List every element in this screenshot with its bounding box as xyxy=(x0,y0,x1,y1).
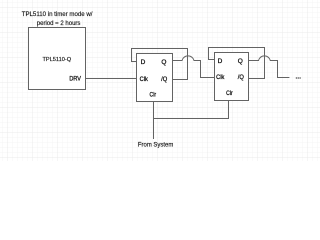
svg-text:period = 2 hours: period = 2 hours xyxy=(37,20,81,27)
svg-text:Q: Q xyxy=(238,58,243,65)
svg-text:D: D xyxy=(218,58,223,65)
svg-text:Clr: Clr xyxy=(150,91,157,98)
svg-text:TPL5110-Q: TPL5110-Q xyxy=(43,57,72,63)
svg-text:/Q: /Q xyxy=(161,76,167,83)
svg-text:TPL5110 in timer mode w/: TPL5110 in timer mode w/ xyxy=(22,11,93,18)
svg-text:D: D xyxy=(141,59,146,66)
svg-text:DRV: DRV xyxy=(69,76,81,83)
svg-text:From System: From System xyxy=(138,142,174,149)
svg-text:/Q: /Q xyxy=(238,74,244,81)
svg-text:Clr: Clr xyxy=(226,90,233,97)
svg-text:Q: Q xyxy=(161,59,166,66)
svg-text:Clk: Clk xyxy=(140,76,149,83)
svg-text:Clk: Clk xyxy=(216,74,225,81)
